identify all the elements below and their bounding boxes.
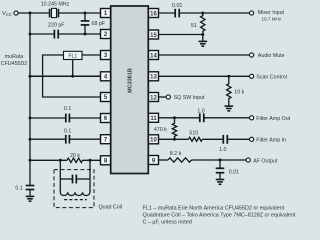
resistor 51 vertical zigzag: [201, 13, 205, 34]
svg-text:10.245 MHz: 10.245 MHz: [41, 2, 70, 8]
svg-text:Quadrature Coil – Toko America: Quadrature Coil – Toko America Type 7MC–…: [143, 212, 296, 218]
node 68pF top: [84, 12, 87, 15]
pin 9: [149, 156, 159, 165]
inductor quad coil arcs: [60, 192, 90, 195]
svg-text:16: 16: [150, 11, 157, 17]
crystal Y1 plates: [49, 9, 51, 18]
node tank right: [89, 159, 92, 162]
node AF/0.01: [219, 159, 222, 162]
pin 16: [149, 9, 159, 18]
svg-text:Filter Amp In: Filter Amp In: [256, 137, 286, 143]
svg-text:Audio Mute: Audio Mute: [258, 53, 285, 59]
svg-text:10.7 MHz: 10.7 MHz: [262, 17, 282, 22]
quad tank right rail: [89, 160, 91, 192]
wire VCC rail vertical: [29, 13, 31, 185]
svg-text:0.01: 0.01: [172, 3, 182, 9]
svg-text:11: 11: [150, 116, 157, 122]
wire cap to mixer terminal: [180, 12, 250, 14]
svg-text:14: 14: [150, 53, 157, 59]
terminal VCC: [14, 11, 18, 15]
node VCC/pin8: [29, 159, 32, 162]
svg-text:12: 12: [150, 95, 157, 101]
node pin15/gnd: [201, 33, 204, 36]
pin 13: [149, 72, 159, 81]
node pin11/470k: [173, 116, 176, 119]
pin numbers: [104, 11, 158, 164]
svg-text:13: 13: [150, 75, 157, 81]
wire pin6 row: [30, 117, 65, 119]
wire crystal to pin1: [59, 12, 101, 14]
node FL1/pin4: [71, 75, 74, 78]
capacitor plates (thick bars): [26, 9, 228, 190]
terminal AF output: [246, 158, 250, 162]
terminal audio mute: [250, 53, 254, 57]
svg-text:Filter Amp Out: Filter Amp Out: [256, 116, 290, 122]
ground 10k: [228, 99, 230, 106]
wire pin12 squelch: [159, 96, 167, 98]
svg-text:510: 510: [189, 131, 198, 137]
terminal SQ SW input: [166, 95, 170, 99]
svg-text:Mixer Input: Mixer Input: [258, 10, 285, 16]
wire pin16 to cap 0.01: [159, 12, 175, 14]
ground AF cap: [216, 180, 225, 185]
terminal filter amp out: [250, 116, 254, 120]
pin 8: [101, 156, 111, 165]
capacitor 0.01 AF plates: [216, 167, 225, 169]
wire FL1 in loop to pin5: [43, 55, 101, 97]
node 68pF bottom: [84, 33, 87, 36]
wire pin4 row: [30, 75, 101, 77]
svg-text:CFU455D2: CFU455D2: [1, 61, 28, 67]
wire pin14 audio mute: [159, 54, 250, 56]
pin 11: [149, 113, 159, 122]
footnote: [143, 205, 296, 225]
wire pin2 row: [30, 33, 54, 35]
svg-text:0.1: 0.1: [64, 128, 71, 134]
wire pin10 row: [159, 138, 189, 140]
pin 10: [149, 135, 159, 144]
svg-text:FL1: FL1: [68, 54, 77, 60]
crystal Y1 box: [52, 8, 57, 17]
pin 14: [149, 51, 159, 60]
capacitor quad tank plates: [72, 175, 74, 184]
resistor 8.2k zigzag: [168, 158, 191, 162]
node VCC/pin4: [29, 75, 32, 78]
pin boxes left: [101, 9, 159, 165]
capacitor 0.01 mixer plates: [174, 9, 176, 18]
wire pin13 scan control: [159, 75, 250, 77]
svg-text:VCC: VCC: [2, 11, 12, 17]
svg-text:51: 51: [191, 23, 197, 29]
capacitor 0.1 pin7 plates: [65, 135, 67, 144]
pin 3: [101, 51, 111, 60]
resistor 510 zigzag: [189, 137, 203, 141]
svg-text:muRata: muRata: [5, 54, 24, 60]
capacitor 0.1 bypass wires: [29, 190, 31, 196]
capacitor 0.01 AF wires: [219, 160, 221, 168]
IC U1 body MC3361B: [111, 6, 149, 174]
svg-text:10 k: 10 k: [234, 89, 244, 95]
node mixer/51: [201, 12, 204, 15]
wire VCC to crystal: [18, 12, 49, 14]
resistor 20k zigzag: [67, 158, 82, 162]
node VCC/220pF: [29, 33, 32, 36]
pin 1: [101, 9, 111, 18]
resistor 10k vertical zigzag: [227, 76, 231, 99]
filter FL1 box: [64, 51, 83, 59]
wire pin8 row: [30, 159, 67, 161]
svg-text:AF Output: AF Output: [253, 158, 278, 164]
pin 7: [101, 135, 111, 144]
svg-text:SQ SW Input: SQ SW Input: [174, 95, 205, 101]
capacitor 0.1 bypass plates: [26, 185, 35, 187]
svg-text:8.2 k: 8.2 k: [170, 151, 182, 157]
svg-text:MC3361B: MC3361B: [127, 68, 133, 93]
value and net labels: [1, 2, 291, 211]
capacitor 220pF plates: [53, 30, 55, 39]
resistor 470k vertical zigzag: [172, 118, 176, 140]
inductor core dashed line: [64, 199, 87, 201]
pin 15: [149, 30, 159, 39]
wire pin9 row: [159, 159, 169, 161]
node tank left: [59, 159, 62, 162]
pin 5: [101, 93, 111, 102]
node VCC/pin7: [29, 138, 32, 141]
svg-text:470 k: 470 k: [154, 127, 167, 133]
node scan/10k: [227, 75, 230, 78]
terminal filter amp in: [250, 137, 254, 141]
svg-text:220 pF: 220 pF: [48, 23, 65, 29]
node pin10/470k: [173, 138, 176, 141]
capacitor 0.1 pin6 plates: [65, 114, 67, 123]
svg-text:15: 15: [150, 33, 157, 39]
capacitor 68pF plates: [81, 20, 90, 22]
pin 6: [101, 114, 111, 123]
wire FL1 out to pin3: [82, 54, 101, 56]
svg-text:FL1 – muRata Erie North Americ: FL1 – muRata Erie North America CFU455D2…: [143, 205, 285, 211]
pin 12: [149, 93, 159, 102]
svg-text:0.01: 0.01: [229, 170, 239, 176]
node VCC/crystal: [29, 12, 32, 15]
quad coil dashed box: [54, 170, 94, 208]
svg-text:C – µF, unless noted: C – µF, unless noted: [143, 219, 192, 225]
pin 2: [101, 30, 111, 39]
capacitor quad tank wires: [60, 178, 72, 180]
svg-text:Scan Control: Scan Control: [256, 74, 287, 80]
svg-text:0.1: 0.1: [64, 106, 71, 112]
svg-text:0.1: 0.1: [15, 185, 22, 191]
capacitor 68pF branch wires: [84, 13, 86, 20]
pin 4: [101, 72, 111, 81]
terminal scan control: [250, 74, 254, 78]
wire pin7 row: [30, 138, 65, 140]
ground 51: [202, 35, 204, 41]
capacitor 1.0 pin11 plates: [199, 113, 201, 122]
svg-text:10: 10: [150, 138, 157, 144]
svg-text:1.0: 1.0: [197, 108, 204, 114]
terminal mixer input: [250, 11, 254, 15]
wire pin15 row: [159, 34, 203, 36]
wire FL1 bottom to pin4 line: [72, 60, 74, 77]
ground bypass: [26, 196, 35, 201]
svg-text:20 k: 20 k: [70, 153, 80, 159]
svg-text:68 pF: 68 pF: [92, 21, 106, 27]
quad tank left rail: [59, 160, 61, 192]
node VCC/pin6: [29, 117, 32, 120]
wire pin11 filter amp out: [159, 117, 200, 119]
svg-text:1.0: 1.0: [219, 147, 226, 153]
capacitor 1.0 pin10 plates: [222, 135, 224, 144]
svg-text:Quad Coil: Quad Coil: [99, 204, 123, 210]
